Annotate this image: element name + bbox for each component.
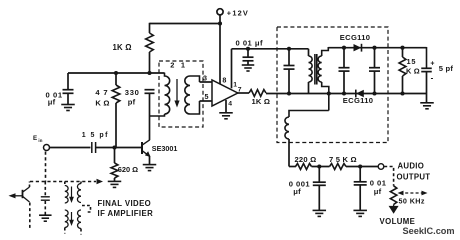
label pin 8 xyxy=(222,75,226,84)
wire C6 top lead xyxy=(343,48,345,68)
junction +12V rail xyxy=(218,21,222,25)
label 15 xyxy=(407,57,417,66)
label 220 ohm xyxy=(295,155,317,164)
T1 secondary winding xyxy=(185,76,190,114)
label 2 1 turns ratio xyxy=(170,60,187,69)
wire op-amp output xyxy=(238,92,250,94)
wire Q1 emitter to ground xyxy=(149,156,151,164)
label pin 5 xyxy=(205,92,209,101)
junction C6 top xyxy=(342,46,346,50)
wire C7 top lead xyxy=(374,48,376,68)
ground under R7 xyxy=(108,181,122,187)
svg-text:5 pf: 5 pf xyxy=(439,64,454,73)
capacitor C4 0.01uF xyxy=(243,57,254,61)
svg-text:15: 15 xyxy=(407,57,417,66)
resistor R2 4.7K xyxy=(112,85,120,103)
wire 330pF to collector xyxy=(149,93,151,140)
wire dashed Q2 emitter down xyxy=(29,203,31,229)
junction base node xyxy=(112,145,116,149)
wire C10 lead xyxy=(359,167,361,182)
phantom capacitor xyxy=(41,182,50,215)
terminal Ein xyxy=(44,145,50,151)
resistor R6 7.5K xyxy=(330,164,347,170)
capacitor C7 detector xyxy=(369,68,380,71)
wire T1 secondary top lead xyxy=(190,76,200,82)
wire T2 primary bottom lead xyxy=(308,82,310,94)
label 15 K ohm xyxy=(406,67,420,76)
wire T1 primary bottom stub xyxy=(150,114,165,116)
ground under C4 xyxy=(242,65,255,71)
wire pin1 decoupling rail xyxy=(232,48,309,50)
wire top rail xyxy=(150,23,221,25)
phantom ground xyxy=(39,215,52,221)
label pin 3 xyxy=(203,73,207,82)
wire to tertiary xyxy=(289,111,329,118)
wire top rail corner to C8 xyxy=(426,47,428,68)
capacitor C9 0.001uF xyxy=(313,182,326,185)
label 330 pf xyxy=(128,97,136,106)
svg-text:K Ω: K Ω xyxy=(95,99,109,108)
junction C6 bottom xyxy=(342,91,346,95)
wire R4 to bottom rail xyxy=(402,76,404,94)
wire R5 to R6 xyxy=(312,166,330,168)
svg-text:μf: μf xyxy=(374,187,382,196)
label ECG110 bottom xyxy=(343,96,374,105)
wire C4 to ground xyxy=(247,61,249,65)
label OUTPUT xyxy=(397,172,431,181)
wire tank cap top lead xyxy=(288,49,290,66)
junction C7 bottom xyxy=(372,91,376,95)
wire C9 to ground xyxy=(318,185,320,210)
label 7 5 K ohm xyxy=(329,155,357,164)
T2 primary winding xyxy=(309,56,313,82)
label +12V xyxy=(227,8,249,17)
diode D2 ECG110 bottom xyxy=(356,90,364,98)
terminal +12V supply xyxy=(217,9,223,15)
label 0 01 xyxy=(370,179,387,188)
wire detector top rail xyxy=(328,47,426,49)
ground under Q1 emitter xyxy=(143,165,157,171)
label 330 xyxy=(125,88,140,97)
wire C7 bottom lead xyxy=(374,71,376,93)
pot bottom arrow xyxy=(389,205,399,214)
label 0 001 xyxy=(289,179,311,188)
wire pin 4 to ground xyxy=(225,100,227,113)
svg-text:ECG110: ECG110 xyxy=(340,33,371,42)
wire R7 to ground xyxy=(114,178,116,181)
svg-text:AUDIO: AUDIO xyxy=(398,161,425,170)
svg-text:5: 5 xyxy=(205,92,209,101)
phantom IFT secondary upper xyxy=(77,184,81,203)
wire left bias rail xyxy=(68,72,165,74)
svg-text:μf: μf xyxy=(293,187,301,196)
label uf left xyxy=(48,97,56,106)
terminal audio output xyxy=(378,164,384,170)
svg-text:620 Ω: 620 Ω xyxy=(118,165,138,174)
label 4.7 K ohm xyxy=(95,99,109,108)
wire dashed IFT mid hook xyxy=(82,206,91,213)
svg-text:SeekIC.com: SeekIC.com xyxy=(403,226,455,236)
svg-text:ECG110: ECG110 xyxy=(343,96,374,105)
resistor R3 1K output xyxy=(249,90,266,97)
capacitor 0.01uF bypass lead xyxy=(67,73,69,90)
svg-text:pf: pf xyxy=(128,97,136,106)
T1 primary winding xyxy=(165,73,170,114)
label Ein xyxy=(33,135,43,143)
T2 secondary winding xyxy=(318,56,322,82)
wire rail to R2 xyxy=(115,73,117,85)
resistor R4 15K xyxy=(399,57,406,76)
wire R6 to output xyxy=(346,166,378,168)
ground under C10 xyxy=(353,210,367,216)
wire dashed collector rail xyxy=(30,181,96,183)
label ECG110 top xyxy=(340,33,371,42)
wire C4 lead xyxy=(247,49,249,57)
junction left rail at R1 xyxy=(147,71,151,75)
wire C6 bottom lead xyxy=(343,71,345,93)
wire dashed IFT top stubs xyxy=(65,182,81,186)
label pin 4 xyxy=(228,101,232,108)
wire C9 lead xyxy=(318,167,320,183)
dashed box interstage transformer T1 xyxy=(159,61,203,127)
wire rail to R4 xyxy=(402,48,404,57)
label FINAL VIDEO xyxy=(98,199,152,208)
wire C8 to bottom rail xyxy=(426,72,428,94)
diode D1 ECG110 top xyxy=(354,44,362,52)
capacitor C11 1.5pF xyxy=(92,142,96,153)
capacitor C6 detector xyxy=(339,68,350,71)
label pin 7 xyxy=(238,87,242,94)
label SE3001 xyxy=(152,144,178,153)
svg-text:in: in xyxy=(38,138,42,143)
wire base node to R7 xyxy=(114,148,116,164)
wire pin 1 drop xyxy=(231,49,233,89)
junction secondary bottom at rail xyxy=(327,91,331,95)
label 5 pf xyxy=(439,64,454,73)
label uf C9 xyxy=(293,187,301,196)
label 0 01 uf top xyxy=(236,38,264,47)
arrow into IF ground xyxy=(97,179,104,184)
svg-text:4 7: 4 7 xyxy=(95,88,108,97)
wire tank cap bottom lead xyxy=(288,69,290,93)
junction rail at C4 xyxy=(246,47,250,51)
wire pin 5 stub xyxy=(200,100,213,102)
capacitor C5 primary tank xyxy=(284,66,295,70)
ground under C9 xyxy=(313,210,327,216)
svg-text:330: 330 xyxy=(125,88,140,97)
wire dashed Q2 collector up xyxy=(29,182,31,188)
label IF AMPLIFIER xyxy=(98,209,154,218)
wire C11 to base xyxy=(96,147,142,149)
junction C7 top xyxy=(372,46,376,50)
wire T1 secondary bottom lead xyxy=(190,101,200,114)
wire detector bottom rail xyxy=(289,93,427,95)
T1 coupling arrow xyxy=(174,79,179,108)
T2 tertiary winding xyxy=(285,117,289,139)
label AUDIO xyxy=(398,161,425,170)
dashed box ratio detector xyxy=(277,27,388,143)
T2 core xyxy=(315,54,317,85)
label VOLUME xyxy=(380,217,416,226)
svg-text:E: E xyxy=(33,135,37,142)
junction C10 top xyxy=(358,164,362,168)
junction tank cap top xyxy=(287,47,291,51)
label 1K ohm xyxy=(113,43,132,52)
wire R3 to detector xyxy=(266,93,290,95)
svg-text:SE3001: SE3001 xyxy=(152,144,178,153)
svg-text:1K Ω: 1K Ω xyxy=(252,97,271,106)
wire C10 to ground xyxy=(359,185,361,211)
label 620 ohm xyxy=(118,165,138,174)
op-amp U1 xyxy=(212,80,238,106)
svg-text:K Ω: K Ω xyxy=(406,67,420,76)
wire dashed output to pot xyxy=(384,167,393,186)
wire dashed Ein drop xyxy=(45,152,47,182)
label uf C10 xyxy=(374,187,382,196)
resistor R7 620 ohm xyxy=(111,163,118,178)
svg-text:+12V: +12V xyxy=(227,8,249,17)
wire Ein to C11 xyxy=(50,147,91,149)
junction tank cap bottom xyxy=(287,91,291,95)
capacitor C10 0.01uF xyxy=(354,182,367,185)
wire T2 secondary top lead xyxy=(322,47,329,56)
svg-text:+: + xyxy=(430,61,434,68)
wire audio corner xyxy=(289,166,296,168)
phantom IFT arrow upper xyxy=(69,187,74,204)
label 4 7 xyxy=(95,88,108,97)
pot wiper arrow xyxy=(398,191,428,196)
junction left rail at R2 xyxy=(114,71,118,75)
wire T2 primary top lead xyxy=(308,49,310,56)
wire T2 secondary bottom lead xyxy=(322,82,329,111)
phantom transistor Q2 xyxy=(9,187,30,202)
label 50 KHz xyxy=(399,196,425,205)
svg-text:1K Ω: 1K Ω xyxy=(113,43,132,52)
svg-text:OUTPUT: OUTPUT xyxy=(397,172,431,181)
svg-text:IF AMPLIFIER: IF AMPLIFIER xyxy=(98,209,154,218)
capacitor 0.01uF left xyxy=(63,90,74,94)
junction C9 top xyxy=(317,164,321,168)
ground detector xyxy=(420,103,434,109)
transistor Q1 SE3001 xyxy=(142,140,151,157)
label 0 01 xyxy=(46,90,63,99)
svg-text:0 01 μf: 0 01 μf xyxy=(236,38,264,47)
svg-text:1: 1 xyxy=(233,81,237,88)
svg-text:1 5 pf: 1 5 pf xyxy=(82,132,109,139)
ground under op-amp pin 4 xyxy=(219,113,233,119)
capacitor C2 330pF xyxy=(145,90,155,94)
wire dashed IFT bottom stubs xyxy=(65,228,81,235)
label 1 5 pf xyxy=(82,132,109,139)
wire 0.01uF to ground xyxy=(67,93,69,104)
svg-text:2 1: 2 1 xyxy=(170,60,187,69)
capacitor C8 5pF electrolytic xyxy=(421,68,432,71)
svg-text:μf: μf xyxy=(48,97,56,106)
svg-text:50 KHz: 50 KHz xyxy=(399,196,425,205)
wire R1 to left rail xyxy=(149,52,151,73)
phantom IFT arrow lower xyxy=(69,212,74,226)
svg-text:4: 4 xyxy=(228,101,232,108)
label minus xyxy=(431,74,434,83)
wire tertiary to audio line xyxy=(288,139,290,167)
svg-text:220 Ω: 220 Ω xyxy=(295,155,317,164)
resistor R1 1K xyxy=(146,33,154,52)
wire +12V terminal to rail xyxy=(219,15,221,24)
wire R2 to base node xyxy=(115,103,117,148)
resistor R5 220 ohm xyxy=(296,164,312,170)
wire pin 8 supply drop xyxy=(219,24,221,85)
ground under 0.01uF xyxy=(61,105,75,111)
wire bottom rail end to ground xyxy=(426,94,428,103)
junction R4 top xyxy=(400,46,404,50)
label 1K ohm output xyxy=(252,97,271,106)
svg-text:3: 3 xyxy=(203,73,207,82)
svg-text:7 5 K Ω: 7 5 K Ω xyxy=(329,155,357,164)
wire pin 3 stub xyxy=(200,81,213,83)
svg-text:8: 8 xyxy=(222,75,226,84)
phantom IFT primary upper xyxy=(65,186,68,203)
wire rail corner down to R1 xyxy=(149,23,151,33)
potentiometer volume 50K xyxy=(390,186,396,205)
svg-text:VOLUME: VOLUME xyxy=(380,217,416,226)
svg-text:FINAL VIDEO: FINAL VIDEO xyxy=(98,199,152,208)
svg-text:-: - xyxy=(431,74,434,83)
label pin 1 xyxy=(233,81,237,88)
phantom IFT secondary lower xyxy=(78,210,81,229)
phantom IFT primary lower xyxy=(65,210,68,227)
junction R4 bottom xyxy=(400,91,404,95)
watermark SeekIC.com xyxy=(403,226,455,236)
label plus xyxy=(430,61,434,68)
